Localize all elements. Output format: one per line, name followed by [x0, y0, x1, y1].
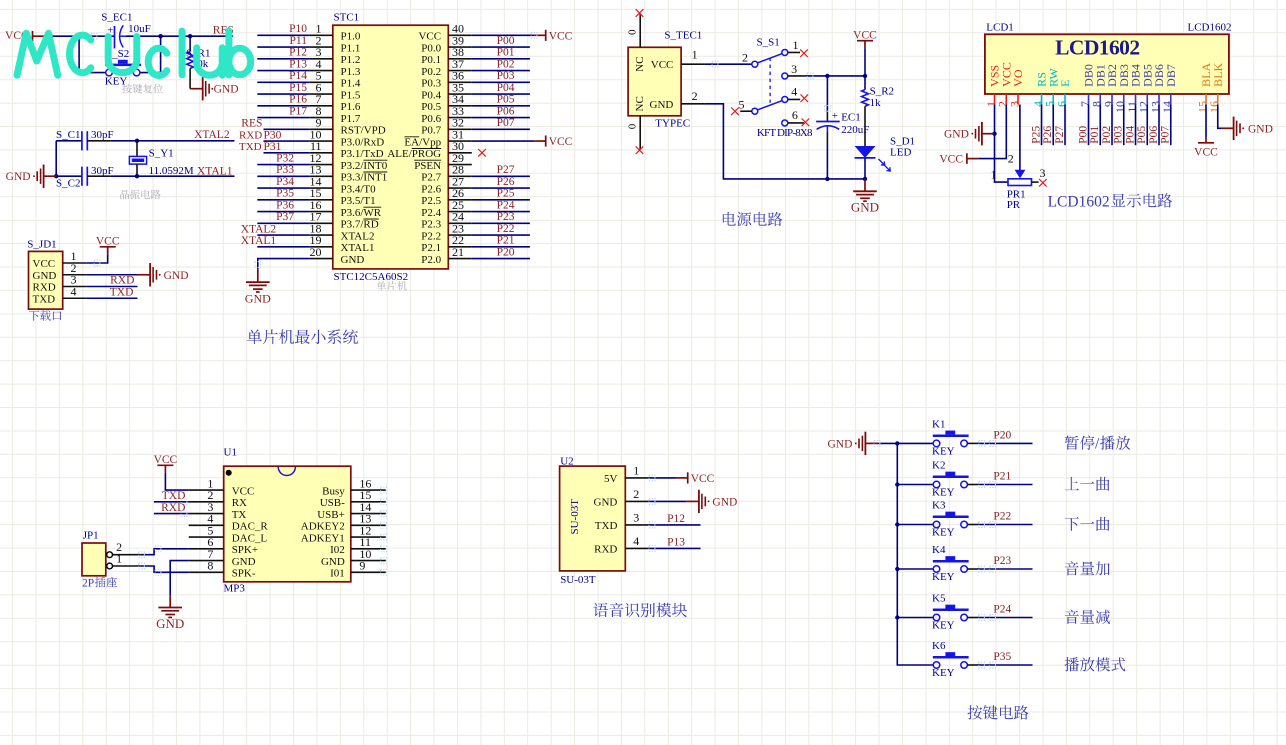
svg-text:TXD: TXD	[110, 286, 134, 298]
svg-text:5: 5	[739, 97, 745, 111]
wire P05 net	[472, 105, 530, 107]
svg-text:GND: GND	[156, 616, 184, 631]
svg-text:S_C2: S_C2	[56, 178, 80, 190]
pin 40 stub	[448, 34, 472, 36]
svg-text:P32: P32	[276, 152, 294, 164]
lcd LCD1 body	[985, 34, 1229, 94]
wire u2 pin4 P13	[649, 547, 701, 549]
wire P34 net	[257, 187, 309, 189]
pin 19 stub	[309, 246, 333, 248]
svg-text:VCC: VCC	[232, 485, 255, 497]
svg-text:P1.1: P1.1	[341, 42, 361, 54]
key switch K4	[933, 566, 940, 573]
svg-text:P3.5/T1: P3.5/T1	[341, 195, 376, 207]
wire P27 net	[1064, 105, 1066, 146]
svg-text:LCD1602: LCD1602	[1055, 36, 1140, 60]
label 暂停/播放	[1065, 435, 1079, 449]
wire P01 net	[472, 58, 530, 60]
junction bus K1	[895, 441, 899, 445]
wire vss to pot	[995, 134, 1009, 182]
svg-text:P00: P00	[497, 35, 515, 47]
label 单片机	[376, 281, 386, 291]
svg-text:EA/Vpp: EA/Vpp	[404, 136, 441, 148]
svg-text:P36: P36	[276, 199, 294, 211]
svg-text:LCD1602: LCD1602	[1188, 22, 1232, 34]
wire VCC down	[978, 105, 1006, 159]
u1 pin 10 stub	[351, 560, 386, 562]
svg-text:XTAL1: XTAL1	[341, 242, 375, 254]
wire BLK down	[1218, 105, 1221, 129]
wire u2 pin2 to GND	[649, 500, 687, 502]
label 音量加	[1065, 561, 1079, 575]
wire P36 net	[257, 211, 309, 213]
no-ERC typec top	[636, 9, 644, 17]
svg-text:SPK+: SPK+	[232, 544, 258, 556]
svg-text:S_TEC1: S_TEC1	[664, 30, 702, 42]
svg-text:S_Y1: S_Y1	[149, 148, 174, 160]
svg-text:P14: P14	[289, 70, 307, 82]
svg-text:P05: P05	[497, 94, 515, 106]
svg-text:1: 1	[692, 47, 698, 61]
svg-text:VCC: VCC	[1194, 146, 1218, 158]
svg-text:VCC: VCC	[154, 454, 178, 466]
junction vcc	[863, 74, 867, 78]
svg-text:14: 14	[1160, 101, 1174, 113]
u1 pin 14 stub	[351, 513, 386, 515]
wire u1 gnd	[170, 561, 189, 596]
svg-text:P1.4: P1.4	[341, 78, 361, 90]
node junction B	[188, 34, 192, 38]
capacitor EC1 220uF	[826, 76, 828, 110]
svg-text:P1.7: P1.7	[341, 113, 361, 125]
svg-text:1: 1	[991, 168, 997, 182]
svg-text:P3.7/RD: P3.7/RD	[341, 219, 379, 231]
junction cap	[825, 74, 829, 78]
power VCC bla	[1205, 138, 1207, 143]
svg-text:LCD1602: LCD1602	[1048, 193, 1110, 210]
u1 pin 12 stub	[351, 536, 386, 538]
wire P17 net	[257, 117, 309, 119]
svg-text:U2: U2	[560, 455, 573, 467]
no-ERC typec bottom	[636, 146, 644, 154]
svg-text:XTAL2: XTAL2	[341, 230, 375, 242]
svg-text:MP3: MP3	[224, 582, 246, 594]
svg-text:P1.5: P1.5	[341, 89, 361, 101]
svg-text:P13: P13	[289, 58, 307, 70]
svg-text:P12: P12	[289, 47, 307, 59]
svg-text:P3.4/T0: P3.4/T0	[341, 183, 377, 195]
u1 pin 9 stub	[351, 571, 386, 573]
u2 pin 2	[625, 500, 649, 502]
wire crystal left leg	[55, 141, 57, 176]
pin 1 stub	[309, 34, 333, 36]
junction rail led	[863, 177, 867, 181]
no-ERC S1 pin1	[800, 49, 808, 57]
wire jp1 pin2 to SPK+	[113, 554, 141, 556]
svg-text:GND: GND	[1248, 123, 1273, 135]
svg-text:P23: P23	[993, 555, 1011, 567]
wire P26 net	[1052, 105, 1054, 146]
junction vss gnd	[992, 132, 996, 136]
svg-text:P1.2: P1.2	[341, 54, 361, 66]
wire VSS down	[994, 105, 996, 134]
key switch K6	[933, 662, 940, 669]
svg-text:P2.3: P2.3	[421, 219, 441, 231]
pin 21 stub	[448, 258, 472, 260]
no-ERC pot pin3	[1039, 179, 1047, 187]
key switch K2	[933, 481, 940, 488]
svg-text:PSEN: PSEN	[414, 160, 441, 172]
svg-text:1k: 1k	[870, 97, 882, 109]
wire TXD net u1	[154, 501, 189, 503]
svg-text:P0.2: P0.2	[421, 66, 441, 78]
wire P16 net	[257, 105, 309, 107]
u2 pin 1	[625, 477, 649, 479]
pin 27 stub	[448, 187, 472, 189]
svg-text:K3: K3	[932, 499, 946, 511]
svg-text:VCC: VCC	[96, 236, 120, 248]
svg-text:RST/VPD: RST/VPD	[341, 125, 386, 137]
power VCC pin31	[534, 140, 545, 142]
svg-text:ALE/PROG: ALE/PROG	[387, 148, 441, 160]
u1 pin 13 stub	[351, 524, 386, 526]
svg-text:8: 8	[207, 559, 213, 573]
svg-text:P2.5: P2.5	[421, 195, 441, 207]
svg-text:P27: P27	[497, 164, 515, 176]
compile marks	[874, 441, 880, 447]
wire K4 to net	[967, 568, 979, 570]
svg-text:VCC: VCC	[691, 473, 715, 485]
svg-text:P11: P11	[290, 35, 308, 47]
svg-text:RXD: RXD	[594, 544, 617, 556]
svg-text:2: 2	[633, 487, 639, 501]
junction bus K5	[895, 615, 899, 619]
svg-text:DAC_L: DAC_L	[232, 532, 268, 544]
pin 29 stub	[448, 164, 472, 166]
wire jp1 pin1 to SPK-	[113, 565, 141, 567]
wire bus to K3	[897, 524, 933, 526]
svg-text:K4: K4	[932, 544, 946, 556]
wire TXD net	[264, 152, 310, 154]
svg-text:P22: P22	[993, 511, 1011, 523]
wire K5 to net	[967, 617, 979, 619]
svg-text:P3.1/TxD: P3.1/TxD	[341, 148, 384, 160]
svg-text:5V: 5V	[604, 473, 618, 485]
svg-text:RXD: RXD	[239, 129, 262, 141]
svg-text:P2.6: P2.6	[421, 183, 441, 195]
svg-text:30pF: 30pF	[91, 165, 114, 177]
wire P13 net	[257, 70, 309, 72]
svg-text:S_EC1: S_EC1	[101, 11, 132, 23]
power VCC JD1	[100, 246, 116, 248]
svg-text:/: /	[1095, 436, 1100, 453]
wire lcd P04 net	[1135, 105, 1137, 146]
svg-text:GND: GND	[827, 438, 852, 450]
switch pin6	[788, 122, 804, 124]
svg-text:P27: P27	[1054, 126, 1066, 144]
svg-text:STC12C5A60S2: STC12C5A60S2	[334, 271, 409, 283]
svg-text:EC1: EC1	[841, 111, 861, 123]
pin 14 stub	[309, 187, 333, 189]
svg-text:P22: P22	[497, 223, 515, 235]
svg-text:4: 4	[71, 284, 77, 298]
svg-text:GND: GND	[164, 270, 189, 282]
mcu U STC1 body	[333, 25, 449, 269]
svg-text:P35: P35	[993, 651, 1011, 663]
svg-text:DB7: DB7	[1164, 64, 1178, 87]
svg-text:JP1: JP1	[83, 530, 99, 542]
svg-text:P25: P25	[497, 188, 515, 200]
wire bus to K2	[897, 484, 933, 486]
svg-text:Busy: Busy	[322, 485, 345, 497]
wire JD1 pin2 to GND	[86, 274, 137, 276]
wire K3 to net	[967, 524, 979, 526]
typec top pin 0	[639, 14, 641, 48]
svg-text:GND: GND	[851, 200, 879, 215]
u1 pin 16 stub	[351, 489, 386, 491]
wire P23 net	[472, 222, 530, 224]
svg-text:SU-03T: SU-03T	[560, 574, 596, 586]
wire lcd P00 net	[1088, 105, 1090, 146]
label 上一曲	[1065, 477, 1079, 490]
svg-text:P00: P00	[1077, 126, 1089, 144]
wire P04 net	[472, 93, 530, 95]
pin 26 stub	[448, 199, 472, 201]
capacitor S_C1 30pF	[56, 140, 82, 142]
u1 pin 15 stub	[351, 501, 386, 503]
wire typec pin2 to ground rail	[705, 104, 865, 179]
wire XTAL1 net	[56, 175, 82, 177]
pin 23 stub	[448, 234, 472, 236]
svg-text:P30: P30	[264, 129, 282, 141]
connector JP1	[82, 543, 106, 576]
label 电源电路	[723, 212, 736, 226]
svg-text:S_S1: S_S1	[757, 37, 780, 49]
svg-text:K1: K1	[932, 418, 945, 430]
svg-text:P17: P17	[289, 105, 307, 117]
wire u2 pin1 to VCC	[649, 477, 677, 479]
pin 31 stub	[448, 140, 472, 142]
svg-text:P3.0/RxD: P3.0/RxD	[341, 136, 385, 148]
pin 2 stub	[309, 46, 333, 48]
svg-text:NC: NC	[634, 96, 646, 111]
svg-text:XTAL1: XTAL1	[241, 235, 277, 247]
svg-text:GND: GND	[341, 254, 365, 266]
svg-text:VCC: VCC	[549, 30, 573, 42]
power VCC supply	[857, 40, 873, 42]
u1 pin 1 stub	[189, 489, 224, 491]
wire P32 net	[257, 164, 309, 166]
ground GND crystal	[44, 175, 57, 177]
wire pin40 to VCC	[472, 34, 535, 36]
crystal S_Y1 11.0592M	[136, 141, 138, 157]
wire lcd P02 net	[1111, 105, 1113, 146]
pin name overlines	[363, 137, 441, 219]
svg-text:P01: P01	[1089, 126, 1101, 144]
svg-text:SU-03T: SU-03T	[569, 499, 581, 535]
led S_D1	[855, 146, 876, 158]
svg-text:P03: P03	[1113, 126, 1125, 144]
svg-text:LED: LED	[890, 147, 911, 159]
svg-text:USB+: USB+	[317, 509, 345, 521]
svg-text:K2: K2	[932, 459, 945, 471]
svg-text:ADKEY1: ADKEY1	[301, 532, 345, 544]
svg-text:LCD1: LCD1	[986, 22, 1014, 34]
wire JD1 pin1 to VCC	[86, 254, 108, 263]
svg-text:PR: PR	[1007, 199, 1021, 211]
svg-text:P23: P23	[497, 211, 515, 223]
svg-text:VCC: VCC	[651, 59, 674, 71]
svg-text:2: 2	[742, 50, 748, 64]
pin 9 stub	[309, 128, 333, 130]
svg-text:VCC: VCC	[853, 30, 877, 42]
svg-text:GND: GND	[245, 291, 271, 305]
wire lcd P03 net	[1123, 105, 1125, 146]
typec bottom pin 0	[639, 116, 641, 150]
label 播放模式	[1064, 657, 1079, 671]
svg-text:1: 1	[793, 38, 799, 52]
svg-text:P21: P21	[993, 471, 1011, 483]
svg-text:XTAL2: XTAL2	[241, 223, 277, 235]
wire lcd P05 net	[1146, 105, 1148, 146]
u1 pin 8 stub	[189, 571, 224, 573]
svg-text:GND: GND	[650, 99, 674, 111]
power VCC	[33, 35, 45, 37]
wire P25 net	[1041, 105, 1043, 146]
svg-text:1: 1	[633, 464, 639, 478]
wire P11 net	[257, 46, 309, 48]
svg-text:P20: P20	[497, 246, 515, 258]
svg-text:P15: P15	[289, 82, 307, 94]
switch lever 5-4	[757, 101, 782, 110]
svg-text:RXD: RXD	[110, 275, 134, 287]
svg-text:P0.7: P0.7	[421, 125, 441, 137]
svg-text:P07: P07	[497, 117, 515, 129]
no-ERC pin30	[478, 149, 486, 157]
keys bus wire	[897, 443, 933, 665]
wire XTAL2 mcu	[257, 234, 309, 236]
svg-text:K6: K6	[932, 640, 946, 652]
pin 6 stub	[309, 93, 333, 95]
wire P07 net	[472, 128, 530, 130]
junction rail cap	[825, 177, 829, 181]
svg-text:XTAL1: XTAL1	[197, 165, 233, 177]
svg-text:S_C1: S_C1	[56, 129, 80, 141]
power VCC u1	[157, 464, 173, 466]
svg-text:TXD: TXD	[595, 520, 618, 532]
wire bus to K5	[897, 617, 933, 619]
logo MCUclub	[17, 31, 229, 76]
pin 12 stub	[309, 164, 333, 166]
svg-text:P0.1: P0.1	[421, 54, 441, 66]
wire u2 pin3 P12	[649, 524, 701, 526]
svg-text:P02: P02	[497, 58, 515, 70]
label 下一曲	[1065, 517, 1079, 531]
svg-text:P31: P31	[264, 141, 282, 153]
wire P10 net	[257, 34, 309, 36]
key switch K3	[933, 521, 940, 528]
svg-text:GND: GND	[33, 270, 57, 282]
wire P03 net	[472, 81, 530, 83]
pin 20 stub	[309, 258, 333, 260]
wire bus to K1	[897, 442, 933, 444]
svg-text:P2.7: P2.7	[421, 172, 441, 184]
pin 4 stub	[309, 70, 333, 72]
pin 17 stub	[309, 222, 333, 224]
wire P33 net	[257, 175, 309, 177]
wire lcd P07 net	[1170, 105, 1172, 146]
svg-text:P0.4: P0.4	[421, 89, 441, 101]
svg-text:P13: P13	[667, 537, 685, 549]
svg-text:P24: P24	[993, 604, 1011, 616]
pin 16 stub	[309, 211, 333, 213]
wire RXD net	[264, 140, 310, 142]
switch pin5	[740, 110, 752, 112]
wire RXD net u1	[154, 513, 189, 515]
svg-text:2P: 2P	[82, 577, 94, 589]
svg-text:P1.0: P1.0	[341, 31, 361, 43]
wire JD1 pin3 RXD	[86, 286, 137, 288]
svg-text:DAC_R: DAC_R	[232, 521, 269, 533]
pin 18 stub	[309, 234, 333, 236]
u1 pin 4 stub	[189, 524, 224, 526]
connector S_JD1	[29, 251, 63, 309]
wire GND pin20	[258, 259, 310, 270]
pin 39 stub	[448, 46, 472, 48]
pin 34 stub	[448, 105, 472, 107]
svg-text:P33: P33	[276, 164, 294, 176]
svg-text:S_JD1: S_JD1	[27, 238, 56, 250]
node junction XTAL1	[135, 174, 139, 178]
ground GND blk	[1221, 127, 1234, 129]
svg-text:I02: I02	[330, 544, 345, 556]
label 单片机最小系统	[247, 329, 262, 344]
wire from node A down to S2	[140, 36, 161, 72]
wire P25 net	[472, 199, 530, 201]
wire K2 to net	[967, 484, 979, 486]
junction bus K4	[895, 567, 899, 571]
pin 13 stub	[309, 175, 333, 177]
svg-text:20: 20	[310, 245, 322, 259]
svg-text:TXD: TXD	[33, 293, 56, 305]
svg-text:P2.2: P2.2	[421, 230, 441, 242]
svg-text:U1: U1	[224, 446, 237, 458]
svg-text:P3.6/WR: P3.6/WR	[341, 207, 382, 219]
wire XTAL2 net	[111, 140, 235, 142]
pin 33 stub	[448, 117, 472, 119]
svg-text:TXD: TXD	[239, 141, 262, 153]
svg-text:VO: VO	[1011, 69, 1025, 87]
svg-text:P26: P26	[497, 176, 515, 188]
svg-text:P26: P26	[1042, 126, 1054, 144]
svg-text:KFT DIP-8X8: KFT DIP-8X8	[757, 127, 813, 139]
no-ERC S1 pin6	[802, 119, 810, 127]
svg-text:USB-: USB-	[320, 497, 345, 509]
wire VCC to reset node	[44, 35, 114, 37]
wire BLA down	[1205, 105, 1207, 138]
switch pin4	[788, 98, 800, 100]
svg-text:P07: P07	[1160, 126, 1172, 144]
u1 pin 7 stub	[189, 560, 224, 562]
power VCC lcd	[967, 158, 979, 160]
label 语音识别模块	[593, 603, 608, 617]
svg-text:2: 2	[1008, 151, 1014, 165]
u1 pin 5 stub	[189, 536, 224, 538]
wire P26 net	[472, 187, 530, 189]
wire P20 net	[472, 258, 530, 260]
svg-text:P16: P16	[289, 94, 307, 106]
label 下载口	[29, 310, 39, 320]
